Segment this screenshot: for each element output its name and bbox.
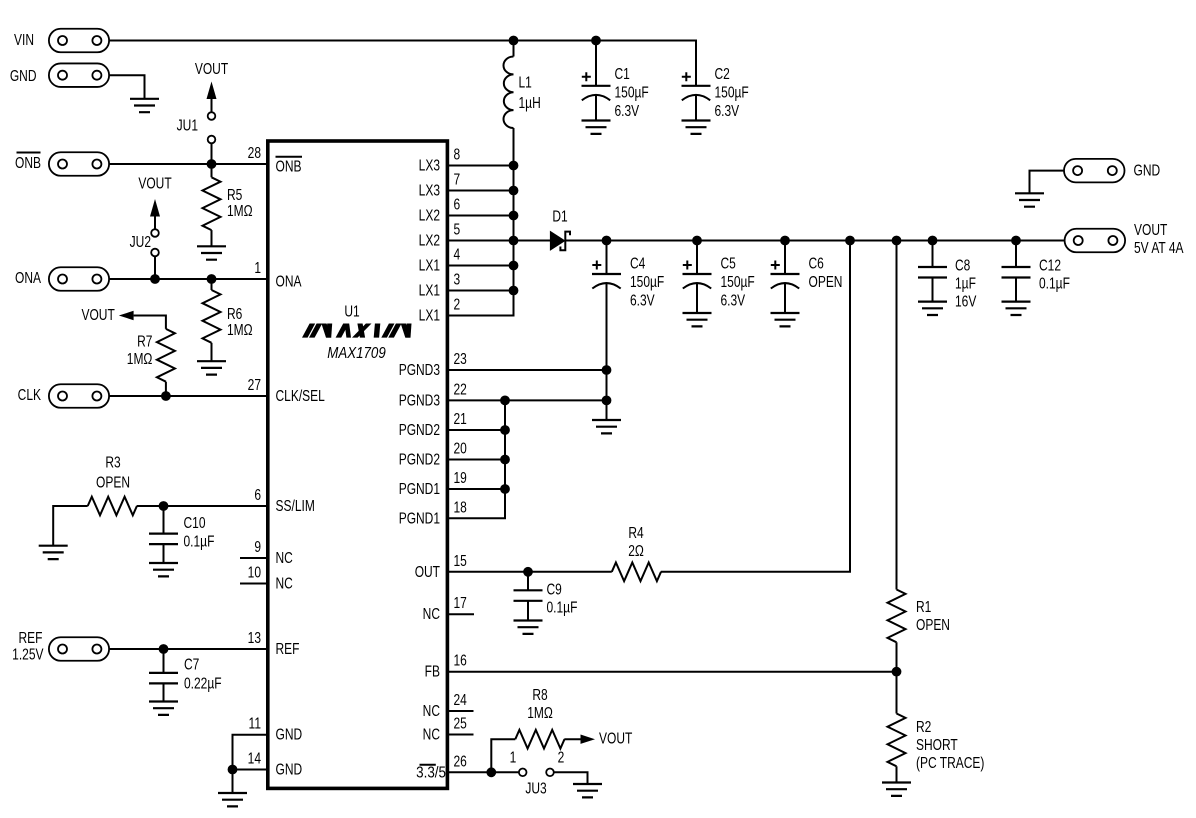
wire LX stub (448, 165, 514, 167)
wire ONA (109, 278, 267, 280)
jumper JU1 (208, 112, 216, 120)
svg-text:LX1: LX1 (419, 306, 440, 324)
connector GND (49, 63, 109, 86)
wire LX stub (448, 265, 514, 267)
svg-text:GND: GND (1134, 161, 1161, 179)
svg-text:3.3/5: 3.3/5 (416, 764, 446, 781)
svg-text:FB: FB (425, 662, 440, 680)
svg-text:C10: C10 (184, 513, 206, 531)
svg-text:26: 26 (454, 752, 467, 770)
svg-text:C2: C2 (715, 64, 730, 82)
wire rail to R1 (896, 241, 898, 590)
wire GND to ground (109, 75, 144, 99)
connector VIN (49, 29, 109, 53)
svg-text:NC: NC (423, 701, 440, 719)
ground (918, 302, 947, 315)
wire OUT pin15 (448, 571, 612, 573)
ground (149, 563, 178, 576)
connector VOUT (1065, 229, 1126, 253)
svg-text:VOUT: VOUT (138, 174, 172, 192)
node ONA/R6 (207, 274, 217, 284)
svg-text:C4: C4 (630, 254, 645, 272)
resistor R7 (157, 329, 175, 382)
wire LX stub (448, 190, 514, 192)
ground (882, 783, 911, 796)
node CLK/R7 (161, 391, 171, 401)
svg-text:VOUT: VOUT (195, 59, 229, 77)
svg-text:LX3: LX3 (419, 156, 440, 174)
wire FB pin16 (448, 671, 897, 673)
svg-text:ONA: ONA (15, 268, 41, 286)
svg-text:1MΩ: 1MΩ (127, 349, 153, 367)
svg-text:1MΩ: 1MΩ (527, 703, 553, 721)
wire JU3 pin2 to ground (555, 772, 588, 784)
ground (771, 313, 800, 326)
ground (573, 784, 602, 797)
wire rail to D1 (514, 240, 551, 242)
svg-text:REF: REF (276, 639, 300, 657)
wire pin26 (448, 771, 518, 773)
capacitor C10 (163, 506, 165, 534)
svg-text:22: 22 (454, 380, 467, 398)
svg-text:LX3: LX3 (419, 181, 440, 199)
wire GND pin11 (233, 735, 268, 770)
svg-text:2Ω: 2Ω (628, 541, 644, 559)
capacitor C6 (784, 241, 786, 275)
ground (149, 702, 178, 715)
ground (218, 793, 247, 806)
wire NC pin25 stub (448, 734, 474, 736)
svg-text:OPEN: OPEN (916, 615, 950, 633)
svg-text:5V AT 4A: 5V AT 4A (1134, 238, 1184, 256)
node rail 850 (845, 236, 855, 246)
resistor R1 (888, 590, 906, 643)
svg-text:ONA: ONA (276, 272, 302, 290)
svg-text:R2: R2 (916, 717, 931, 735)
wire NC pin17 stub (448, 613, 474, 615)
ground (197, 361, 226, 374)
capacitor C1 (595, 41, 597, 86)
ground (197, 246, 226, 259)
svg-text:VIN: VIN (14, 30, 34, 48)
svg-text:1MΩ: 1MΩ (227, 320, 253, 338)
wire R7 top (134, 316, 166, 329)
wire VIN rail (109, 41, 696, 86)
node rail 785 (780, 236, 790, 246)
wire PGND3 pin23 (448, 369, 607, 371)
node PGND 430 (500, 425, 510, 435)
svg-text:17: 17 (454, 593, 467, 611)
svg-text:JU2: JU2 (130, 232, 151, 250)
jumper JU3 (519, 769, 527, 777)
wire NC pin24 stub (448, 710, 474, 712)
inductor L1 (513, 41, 515, 57)
svg-text:PGND1: PGND1 (399, 509, 440, 527)
wire ONB (109, 163, 267, 165)
svg-text:1µH: 1µH (519, 93, 541, 111)
svg-text:GND: GND (10, 66, 37, 84)
connector ONB (49, 152, 109, 176)
svg-text:1µF: 1µF (955, 274, 976, 292)
svg-text:6.3V: 6.3V (715, 101, 740, 119)
wire PGND1 pin19 (448, 488, 505, 490)
svg-text:14: 14 (248, 749, 261, 767)
svg-text:NC: NC (276, 574, 293, 592)
node SS/LIM (159, 501, 169, 511)
svg-text:1: 1 (254, 258, 261, 276)
node OUT/C9 (523, 567, 533, 577)
svg-text:24: 24 (454, 690, 467, 708)
svg-text:R7: R7 (137, 332, 152, 350)
svg-text:16: 16 (454, 651, 467, 669)
node rail 932.5 (928, 236, 938, 246)
capacitor C8 (932, 241, 934, 268)
svg-text:LX2: LX2 (419, 231, 440, 249)
node PGND 459.5 (500, 455, 510, 465)
node pin26/R8 (486, 767, 496, 777)
node ONA/JU2 (150, 274, 160, 284)
svg-text:2: 2 (454, 295, 461, 313)
svg-text:SHORT: SHORT (916, 735, 958, 753)
node rail 1016 (1011, 236, 1021, 246)
svg-text:5: 5 (454, 220, 461, 238)
svg-text:0.1µF: 0.1µF (184, 532, 215, 550)
wire LX stub (448, 290, 514, 292)
svg-text:PGND3: PGND3 (399, 360, 440, 378)
capacitor C9 (527, 572, 529, 591)
svg-text:27: 27 (248, 375, 261, 393)
node PGND 400.4 (500, 396, 510, 406)
svg-text:LX1: LX1 (419, 281, 440, 299)
node VIN/L1 (509, 36, 519, 46)
connector ONA (49, 267, 109, 291)
svg-text:NC: NC (423, 604, 440, 622)
capacitor C2 (682, 85, 711, 87)
ground (130, 99, 159, 112)
wire NC pin9 stub (240, 557, 268, 559)
wire JU1 (211, 96, 213, 164)
svg-text:18: 18 (454, 498, 467, 516)
svg-text:19: 19 (454, 468, 467, 486)
node LX 190.5 (509, 186, 519, 196)
svg-text:D1: D1 (552, 207, 567, 225)
svg-text:1MΩ: 1MΩ (227, 201, 253, 219)
svg-text:6.3V: 6.3V (630, 291, 655, 309)
wire REF (109, 648, 267, 650)
svg-text:ONB: ONB (276, 157, 302, 175)
svg-text:NC: NC (276, 548, 293, 566)
ground (1015, 193, 1044, 206)
node PGND3 pin22 (602, 396, 612, 406)
svg-text:6.3V: 6.3V (615, 101, 640, 119)
node VIN/C1 (591, 36, 601, 46)
connector REF (49, 637, 109, 661)
svg-text:2: 2 (558, 748, 565, 766)
svg-text:6: 6 (454, 195, 461, 213)
svg-text:PGND2: PGND2 (399, 450, 440, 468)
svg-text:VOUT: VOUT (1134, 220, 1168, 238)
node FB (892, 667, 902, 677)
svg-text:0.1µF: 0.1µF (547, 598, 578, 616)
arrow VOUT R7 (119, 311, 134, 320)
resistor R2 (896, 672, 898, 714)
svg-text:9: 9 (254, 537, 261, 555)
svg-text:4: 4 (454, 245, 461, 263)
svg-text:VOUT: VOUT (81, 305, 115, 323)
MAXIM logo (302, 324, 412, 338)
svg-text:6: 6 (254, 485, 261, 503)
ground (592, 420, 621, 433)
svg-text:150µF: 150µF (721, 272, 756, 290)
arrow VOUT JU2 (150, 199, 160, 217)
wire GND pin14 (233, 769, 268, 771)
svg-text:7: 7 (454, 170, 461, 188)
svg-text:CLK: CLK (18, 385, 42, 403)
wire GND right (1030, 171, 1065, 194)
svg-text:PGND2: PGND2 (399, 420, 440, 438)
svg-text:150µF: 150µF (630, 272, 665, 290)
connector CLK (49, 384, 109, 408)
wire PGND2 pin20 (448, 459, 505, 461)
diode D1 (Schottky) (550, 232, 564, 251)
svg-text:OPEN: OPEN (809, 272, 843, 290)
node LX 290.5 (509, 286, 519, 296)
node LX 265.5 (509, 261, 519, 271)
ground (1002, 302, 1031, 315)
resistor R4 (612, 563, 661, 582)
ground (582, 121, 611, 134)
svg-text:0.22µF: 0.22µF (184, 674, 222, 692)
svg-text:8: 8 (454, 145, 461, 163)
svg-text:3: 3 (454, 270, 461, 288)
svg-text:ONB: ONB (15, 153, 41, 171)
wire LX stub (448, 215, 514, 217)
svg-text:23: 23 (454, 349, 467, 367)
svg-text:(PC TRACE): (PC TRACE) (916, 753, 984, 771)
node ONB/R5 (207, 159, 217, 169)
capacitor C12 (1015, 241, 1017, 268)
svg-text:OUT: OUT (415, 562, 441, 580)
op-amp U1 MAX1709 (268, 141, 448, 788)
svg-text:R4: R4 (628, 523, 643, 541)
resistor R3 (53, 506, 87, 546)
arrow VOUT JU1 (207, 82, 217, 100)
svg-text:PGND1: PGND1 (399, 479, 440, 497)
wire output rail (565, 240, 1064, 242)
ground (514, 621, 543, 634)
svg-text:11: 11 (249, 714, 262, 732)
svg-text:150µF: 150µF (715, 83, 750, 101)
wire PGND2 pin21 (448, 429, 505, 431)
node REF/C7 (159, 644, 169, 654)
svg-text:R8: R8 (532, 685, 547, 703)
svg-text:21: 21 (454, 409, 467, 427)
svg-text:JU3: JU3 (525, 779, 546, 797)
svg-text:28: 28 (248, 143, 261, 161)
svg-text:NC: NC (423, 725, 440, 743)
wire PGND1 pin18 (448, 400, 505, 518)
svg-text:13: 13 (248, 628, 261, 646)
wire to ground (232, 770, 234, 794)
svg-text:C8: C8 (955, 256, 970, 274)
node rail 606.5 (602, 236, 612, 246)
svg-text:R1: R1 (916, 597, 931, 615)
capacitor C4 (606, 241, 608, 275)
svg-text:U1: U1 (344, 302, 359, 320)
arrow VOUT R8 (581, 735, 596, 744)
svg-text:0.1µF: 0.1µF (1039, 274, 1070, 292)
node rail 896.5 (892, 236, 902, 246)
resistor R5 (211, 164, 213, 177)
capacitor C7 (163, 649, 165, 673)
svg-text:SS/LIM: SS/LIM (276, 496, 315, 514)
svg-text:PGND3: PGND3 (399, 391, 440, 409)
svg-text:VOUT: VOUT (599, 729, 633, 747)
node LX 215.5 (509, 211, 519, 221)
wire R4 to rail (661, 241, 850, 572)
capacitor C5 (696, 241, 698, 275)
wire LX vertical (448, 128, 514, 316)
svg-text:C6: C6 (809, 254, 824, 272)
svg-text:25: 25 (454, 714, 467, 732)
wire CLK (109, 395, 267, 397)
svg-text:OPEN: OPEN (96, 473, 130, 491)
svg-text:L1: L1 (519, 73, 532, 91)
node PGND3 pin23 (602, 365, 612, 375)
svg-text:1: 1 (510, 748, 517, 766)
svg-text:GND: GND (276, 725, 303, 743)
wire PGND3 pin22 (448, 399, 607, 401)
node LX 165.5 (509, 161, 519, 171)
node rail 697 (692, 236, 702, 246)
wire LX stub (448, 240, 514, 242)
ground (683, 313, 712, 326)
svg-text:1.25V: 1.25V (12, 645, 44, 663)
svg-text:CLK/SEL: CLK/SEL (276, 386, 325, 404)
svg-text:REF: REF (19, 628, 43, 646)
svg-text:20: 20 (454, 439, 467, 457)
svg-text:C12: C12 (1039, 256, 1061, 274)
connector GND right (1064, 159, 1125, 183)
wire JU2 (154, 213, 156, 279)
jumper JU2 (151, 229, 159, 237)
svg-text:C9: C9 (547, 580, 562, 598)
node LX 240.5 (509, 236, 519, 246)
svg-text:GND: GND (276, 760, 303, 778)
svg-text:150µF: 150µF (615, 83, 650, 101)
svg-text:C5: C5 (721, 254, 736, 272)
node GND pins (228, 765, 238, 775)
resistor R8 (491, 739, 515, 772)
node PGND 489 (500, 484, 510, 494)
svg-text:C7: C7 (184, 655, 199, 673)
svg-text:JU1: JU1 (177, 116, 198, 134)
svg-text:LX2: LX2 (419, 206, 440, 224)
svg-text:MAX1709: MAX1709 (327, 345, 385, 362)
svg-text:C1: C1 (615, 64, 630, 82)
svg-text:6.3V: 6.3V (721, 291, 746, 309)
svg-text:16V: 16V (955, 292, 977, 310)
ground (682, 121, 711, 134)
wire NC pin10 stub (240, 583, 268, 585)
svg-text:LX1: LX1 (419, 256, 440, 274)
svg-text:10: 10 (248, 563, 261, 581)
resistor R6 (211, 279, 213, 290)
ground (39, 546, 68, 559)
svg-text:15: 15 (454, 551, 467, 569)
svg-text:R3: R3 (105, 453, 120, 471)
